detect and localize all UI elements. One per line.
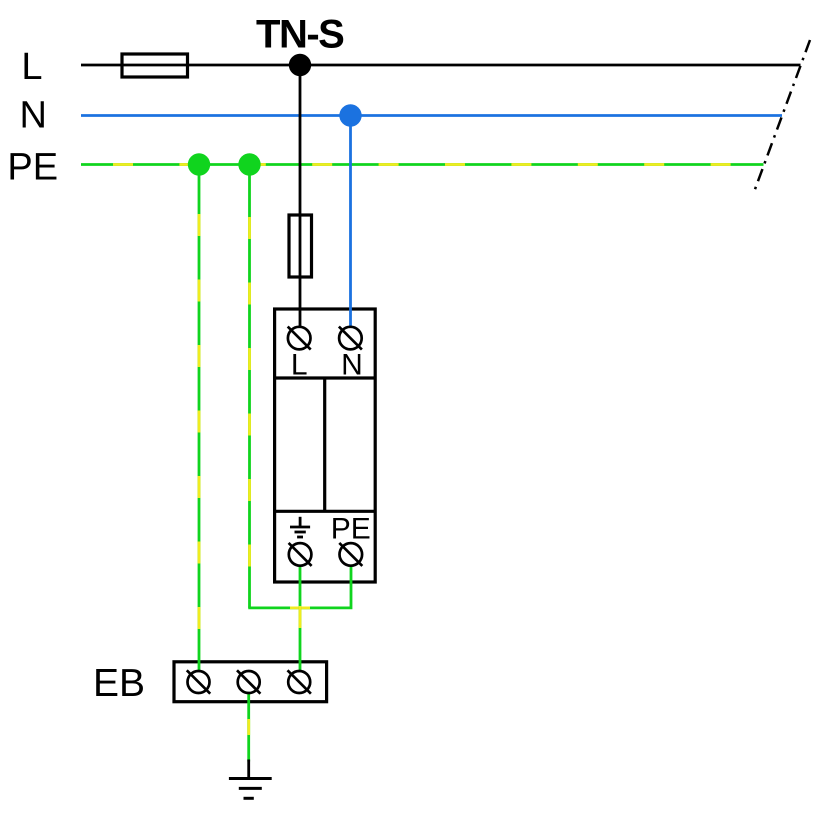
- terminal EB 3: [288, 670, 311, 693]
- wire PE drop 2 (x=249.5 down): [248, 165, 251, 608]
- terminal EB 2: [237, 670, 260, 693]
- wire PE drop 1 (x=199 down to EB): [198, 165, 201, 671]
- wire PE bus (green): [81, 163, 764, 166]
- svg-text:PE: PE: [331, 513, 371, 546]
- svg-text:EB: EB: [93, 662, 145, 705]
- divider top section: [275, 376, 376, 379]
- wire PE bus yellow dashes: [81, 163, 764, 166]
- wire EB to earth yellow dash: [247, 694, 250, 761]
- node L junction: [289, 54, 311, 76]
- ground earth symbol bottom: [229, 760, 272, 799]
- terminal EB 1: [187, 670, 210, 693]
- node PE junction 1: [188, 153, 210, 175]
- node PE junction 2: [238, 153, 260, 175]
- terminal PE of SPD: [339, 543, 362, 566]
- wire PE drop 1 yellow dashes: [198, 165, 201, 671]
- svg-text:TN-S: TN-S: [256, 12, 344, 56]
- wire EB to earth: [247, 694, 250, 762]
- break line (dash-dot diagonal): [754, 40, 810, 192]
- wire L bus: [81, 64, 801, 67]
- wire L drop (black vertical): [299, 65, 302, 327]
- divider bottom section: [275, 510, 376, 513]
- terminal ground of SPD: [289, 543, 312, 566]
- ground symbol in SPD: [290, 517, 310, 537]
- EB box: [174, 662, 327, 702]
- fuse F1 on L bus: [122, 54, 188, 77]
- svg-text:N: N: [19, 95, 46, 137]
- divider middle vertical: [323, 378, 326, 511]
- terminal N of SPD: [339, 327, 362, 350]
- wire N bus: [81, 114, 782, 117]
- wire PE horizontal link yellow dash: [250, 607, 352, 610]
- terminal L of SPD: [288, 327, 311, 350]
- wire SPD ground to EB yellow dash: [299, 566, 302, 671]
- svg-text:L: L: [21, 46, 42, 88]
- svg-text:L: L: [291, 348, 308, 381]
- wire N drop (blue vertical): [349, 116, 352, 328]
- wire SPD ground terminal to EB: [299, 566, 302, 671]
- wire PE horizontal link: [248, 566, 351, 608]
- node N junction: [339, 104, 361, 126]
- fuse F2 vertical: [289, 215, 312, 277]
- op SPD box U1: [275, 309, 376, 582]
- wire PE drop 2 yellow dashes: [248, 165, 251, 608]
- svg-text:N: N: [341, 348, 363, 381]
- svg-text:PE: PE: [7, 146, 58, 188]
